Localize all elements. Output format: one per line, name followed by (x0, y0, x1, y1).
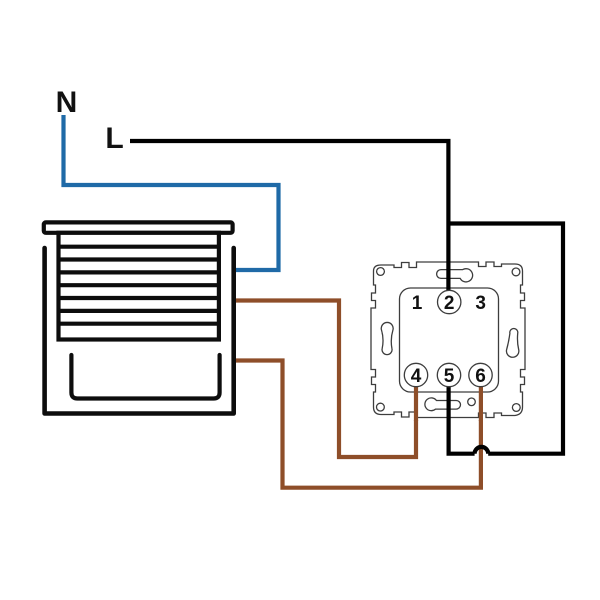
shutter motor: top cap (44, 222, 233, 232)
shutter motor: outer box U (45, 248, 234, 414)
screw hole bottom-right (512, 404, 520, 412)
terminal 6 circle (469, 363, 492, 386)
svg-text:1: 1 (412, 293, 423, 314)
svg-text:6: 6 (475, 366, 486, 387)
terminal 5 circle (437, 363, 460, 386)
svg-text:3: 3 (475, 293, 486, 314)
wire hop over brown at x=481 (475, 447, 489, 454)
keyhole slot bottom (425, 398, 461, 411)
wire brown 2: shutter to terminal 6 (236, 361, 481, 488)
wire brown to terminal 6 (over plate) (479, 380, 483, 421)
claw slot right (506, 329, 518, 358)
shutter slat lines (59, 247, 219, 324)
wire brown to terminal 4 (over plate) (414, 380, 418, 421)
terminal 2 circle (438, 290, 461, 313)
wire black from terminal 5 down and right to hop (449, 380, 475, 454)
shutter motor: slat box (59, 233, 219, 340)
svg-text:L: L (105, 122, 123, 155)
shutter motor: inner bottom U bracket (71, 355, 219, 399)
svg-text:4: 4 (411, 366, 422, 387)
screw hole top-right (512, 268, 520, 276)
screw hole top-left (377, 268, 385, 276)
wire N blue: from N down, right, down to shutter (64, 115, 279, 270)
wire branch black: T from L wire right, down right side (448, 224, 563, 454)
claw slot left (381, 322, 393, 354)
screw hole small right of bottom keyhole (468, 398, 476, 406)
terminal 4 circle (404, 363, 427, 386)
screw hole bottom-left (377, 403, 385, 411)
keyhole slot top (437, 269, 473, 282)
svg-text:5: 5 (444, 366, 455, 387)
wire brown 1: shutter to terminal 4 (236, 301, 416, 458)
svg-text:2: 2 (444, 293, 455, 314)
wire L black: from L right, down to terminal 2 (130, 141, 448, 292)
switch body rounded square (400, 288, 499, 392)
switch support plate outline (371, 262, 525, 418)
svg-text:N: N (56, 86, 78, 119)
